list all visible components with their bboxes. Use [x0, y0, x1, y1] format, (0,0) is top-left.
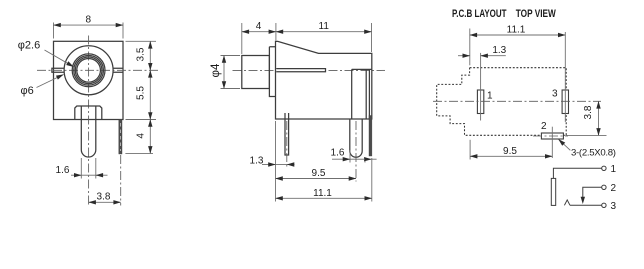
svg-text:3.8: 3.8 [583, 105, 594, 119]
dim 9.5 line [276, 178, 357, 180]
svg-text:9.5: 9.5 [503, 146, 517, 157]
svg-text:φ2.6: φ2.6 [18, 39, 40, 51]
pad leader arrow [558, 139, 570, 150]
svg-text:3.5: 3.5 [136, 47, 147, 61]
svg-text:8: 8 [86, 15, 92, 26]
svg-text:2: 2 [611, 183, 617, 194]
right pin center dashed extension [120, 155, 122, 206]
internal right pin edges [366, 70, 369, 119]
pad 2 centerline horizontal [533, 135, 568, 137]
dim 11.1 line [276, 197, 372, 199]
svg-text:2: 2 [541, 121, 547, 132]
svg-text:φ4: φ4 [210, 63, 222, 77]
svg-text:3: 3 [552, 89, 558, 100]
leader phi6 [37, 75, 64, 88]
svg-text:1: 1 [611, 164, 617, 175]
phi4 extension lines [221, 55, 241, 57]
terminal 1 circle [602, 166, 606, 170]
middle pin centerline [355, 121, 357, 182]
pin bottom extension [125, 152, 153, 154]
top right extension [126, 40, 157, 42]
pad 2 [541, 133, 563, 139]
contact caret [564, 200, 570, 205]
pin gap extension [364, 158, 366, 163]
svg-text:3.8: 3.8 [97, 192, 111, 203]
ring circle r13.5 [75, 57, 102, 84]
dim 3.8 line [89, 201, 121, 203]
dim 1.3 line outside arrows [262, 164, 276, 166]
vertical centerline [88, 36, 90, 206]
svg-text:11: 11 [319, 21, 330, 32]
svg-text:11.1: 11.1 [313, 188, 332, 199]
left pin centerline [286, 121, 288, 168]
side centerline [233, 69, 386, 71]
dim 8 line [54, 24, 124, 26]
right side pin (dark) [369, 116, 372, 157]
dim 3.5 line [149, 41, 151, 70]
shared extension 4/11 [275, 23, 277, 41]
ring circle r16 [72, 54, 105, 87]
dim 1.3 outside arrows [458, 55, 470, 57]
center pin front [81, 106, 96, 157]
body right edge extension [371, 158, 373, 202]
wire 3 [570, 204, 602, 206]
bottom boss [75, 106, 102, 120]
dim 11.1 left extension [469, 29, 471, 66]
dim 9.5 line [470, 155, 552, 157]
wire 2 with switch arrow [583, 187, 602, 197]
svg-text:1.6: 1.6 [56, 165, 70, 176]
right pin front (dark) [119, 120, 122, 155]
rounded pin left edge extension [349, 150, 351, 163]
pad 1 centerline [480, 53, 482, 121]
leader phi2.6 [45, 50, 74, 67]
switch arrow head [581, 197, 585, 204]
svg-text:11.1: 11.1 [507, 25, 526, 36]
dim 1.6 line with outside arrows [71, 174, 81, 176]
dim 11 right extension [371, 23, 373, 52]
side body outline [276, 41, 372, 119]
left side tab [52, 68, 64, 72]
left side pin [285, 113, 289, 155]
pad 2 centerline vertical [551, 127, 553, 158]
svg-text:φ6: φ6 [21, 85, 34, 97]
svg-text:5.5: 5.5 [136, 86, 147, 100]
dim 5.5 line [149, 70, 151, 119]
dim 9.5 left extension [469, 140, 471, 160]
flange [269, 47, 275, 97]
tip contact rectangle [551, 178, 555, 205]
pad2 right extension [566, 134, 607, 136]
svg-text:1: 1 [487, 91, 493, 102]
dim 11.1 line [470, 34, 566, 36]
dim 3.8 line [598, 101, 600, 135]
svg-text:P.C.B LAYOUT: P.C.B LAYOUT [452, 8, 507, 20]
dim 4 line [242, 31, 276, 33]
terminal 2 circle [602, 185, 606, 189]
jack body front square [54, 41, 124, 119]
svg-text:3-(2.5X0.8): 3-(2.5X0.8) [571, 147, 616, 158]
internal top-right line [352, 68, 372, 70]
svg-text:4: 4 [136, 133, 147, 139]
svg-text:4: 4 [256, 21, 262, 32]
svg-text:1.3: 1.3 [250, 156, 264, 167]
wire 1 [553, 168, 601, 178]
bushing phi4 [242, 56, 270, 89]
ring circle r15 [74, 55, 104, 85]
dim 4 line [149, 120, 151, 154]
internal contact lines [276, 69, 325, 72]
internal pin slot edge [351, 69, 353, 119]
middle rounded pin [350, 119, 362, 157]
dim 8 extension lines [53, 23, 55, 39]
right side tab [113, 68, 123, 72]
pad 3 centerline / pcb right extension [564, 32, 566, 122]
dim 11 line [276, 31, 372, 33]
hole circle (phi 2.6) [77, 58, 101, 82]
pcb centerline [433, 100, 601, 102]
pad 3 [562, 90, 568, 114]
dim 1.6 line outside arrows [332, 158, 350, 160]
dim 4 left extension [241, 23, 243, 54]
pcb outline dashed [437, 68, 567, 136]
outer barrel circle (phi 6) [64, 46, 113, 95]
pad 1 [477, 90, 483, 114]
terminal 3 circle [602, 203, 606, 207]
bottom right extension [126, 119, 157, 121]
svg-text:TOP VIEW: TOP VIEW [516, 8, 557, 20]
dim 1.6 extension lines [80, 158, 82, 179]
svg-text:1.3: 1.3 [492, 45, 506, 56]
body left edge extension [275, 121, 277, 202]
svg-text:1.6: 1.6 [331, 148, 345, 159]
svg-text:9.5: 9.5 [312, 168, 326, 179]
phi4 dim line [223, 56, 225, 89]
svg-text:3: 3 [611, 201, 617, 212]
horizontal centerline [37, 69, 160, 71]
